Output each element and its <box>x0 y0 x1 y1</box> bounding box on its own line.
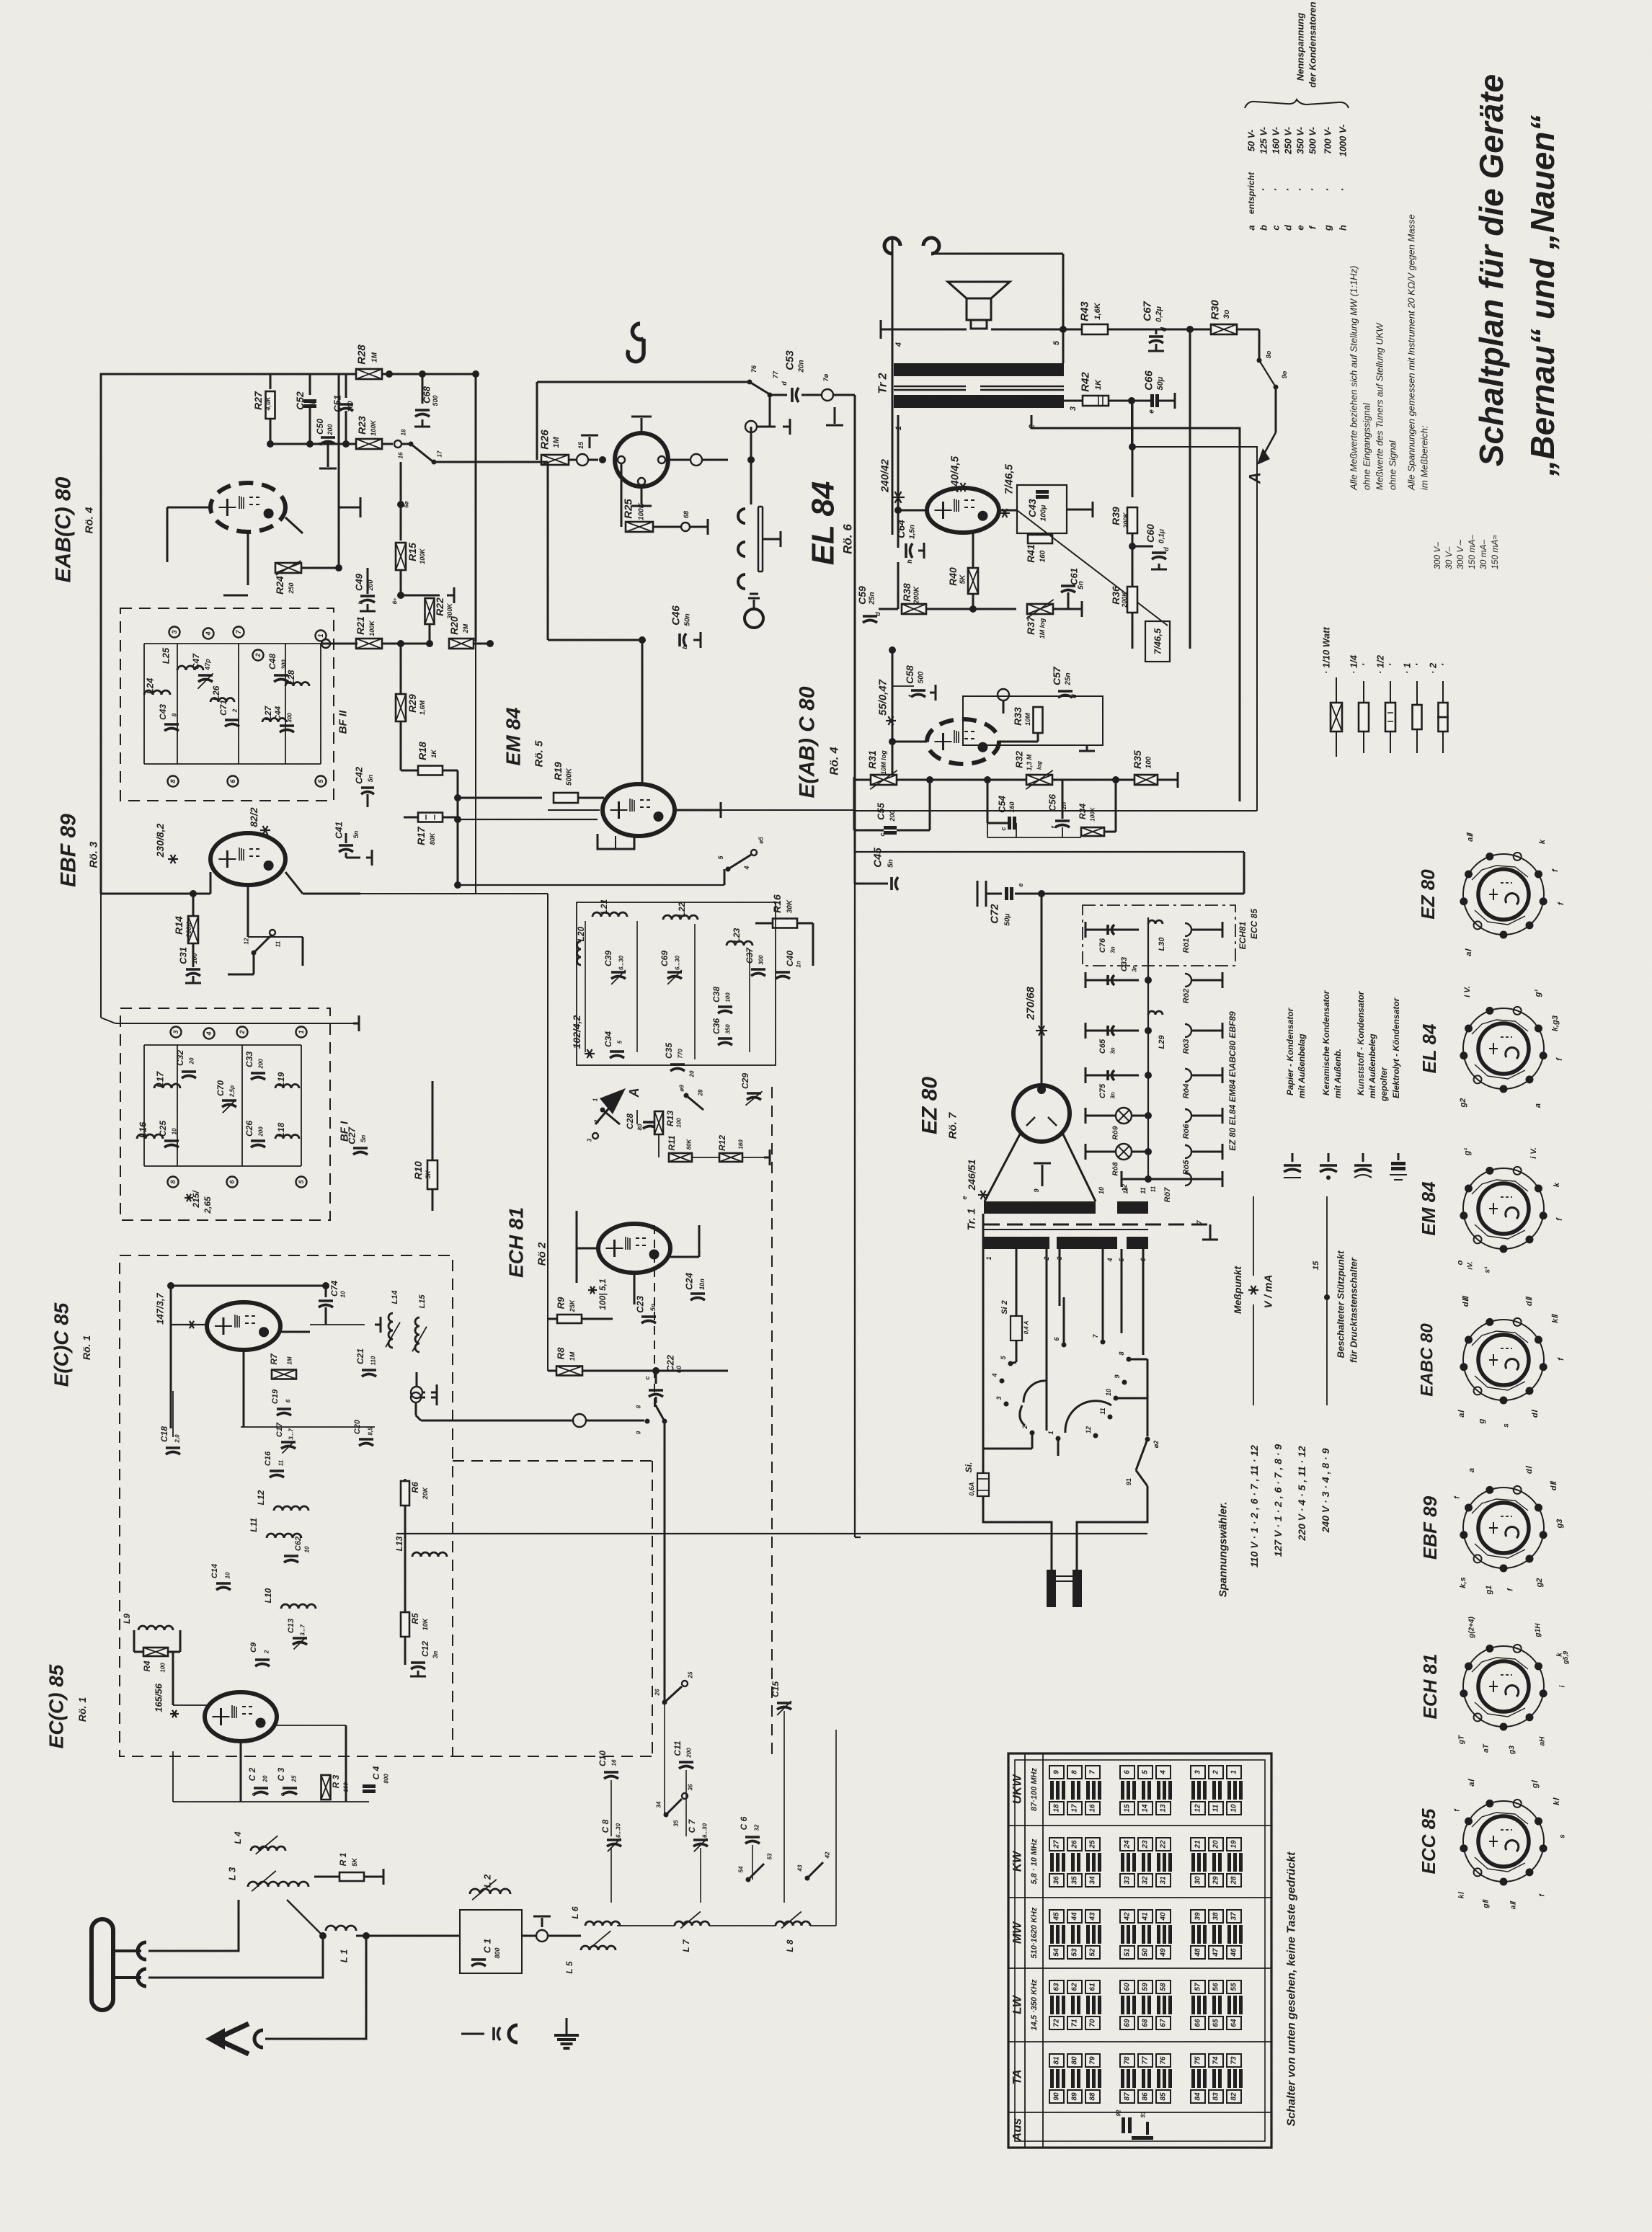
svg-text:R22: R22 <box>434 597 445 616</box>
svg-text:R15: R15 <box>407 543 418 561</box>
svg-text:L29: L29 <box>1158 1035 1166 1049</box>
cap C35 <box>670 1063 685 1066</box>
resistor R38 <box>897 562 900 609</box>
svg-text:5n: 5n <box>352 830 360 838</box>
svg-text:10M log: 10M log <box>880 750 887 775</box>
svg-text:11: 11 <box>1150 1186 1157 1192</box>
svg-text:7/46,5: 7/46,5 <box>1153 628 1163 654</box>
svg-text:100K: 100K <box>1090 806 1096 821</box>
antenna input hook <box>254 2030 263 2048</box>
svg-text:100: 100 <box>676 1118 683 1128</box>
svg-text:C67: C67 <box>1142 301 1154 321</box>
svg-text:1,6K: 1,6K <box>1093 302 1102 319</box>
wire EM84 link <box>458 884 724 886</box>
selector contacts <box>1008 1361 1013 1366</box>
svg-text:5n: 5n <box>367 774 374 782</box>
svg-text:500 V-: 500 V- <box>1307 127 1318 154</box>
switch 8 9 below C22 <box>645 1419 650 1424</box>
svg-text:40: 40 <box>1160 1912 1168 1921</box>
capacitor C74 <box>319 1299 333 1302</box>
svg-text:510·1620 KHz: 510·1620 KHz <box>1030 1907 1039 1958</box>
trim cap C47 <box>198 674 213 677</box>
svg-text:C65: C65 <box>1098 1039 1107 1054</box>
svg-text:C75: C75 <box>1098 1083 1107 1098</box>
svg-text:R29: R29 <box>407 694 418 713</box>
svg-text:2: 2 <box>1021 1425 1029 1429</box>
svg-text:C57: C57 <box>1051 666 1062 685</box>
svg-text:14,5 ·350 KHz: 14,5 ·350 KHz <box>1030 1979 1039 2030</box>
svg-text:68: 68 <box>1142 2019 1150 2027</box>
wires EBF89 <box>144 893 210 895</box>
svg-text:300: 300 <box>287 713 293 723</box>
cap C34 <box>610 1050 624 1053</box>
wire R43 to C67 <box>1108 329 1190 331</box>
wire R42 to C66 <box>1109 400 1152 402</box>
svg-text:8: 8 <box>169 1180 177 1183</box>
legend Keramischer Kondensator symbol <box>1328 1153 1330 1162</box>
svg-text:C59: C59 <box>856 586 868 605</box>
resistor legend 1/2 symbol <box>1390 681 1391 753</box>
svg-text:54: 54 <box>1053 1948 1061 1957</box>
svg-text:100: 100 <box>725 992 732 1002</box>
svg-text:gT: gT <box>1458 1735 1466 1745</box>
svg-text:·: · <box>1282 188 1294 192</box>
gnd inner frame right <box>1086 745 1088 751</box>
svg-text:R36: R36 <box>1110 586 1122 605</box>
svg-text:d: d <box>781 381 788 386</box>
svg-text:28: 28 <box>1230 1876 1238 1885</box>
speaker connector circle <box>615 433 668 486</box>
svg-text:L 4: L 4 <box>233 1831 243 1844</box>
svg-text:260: 260 <box>347 401 354 412</box>
svg-text:C49: C49 <box>354 573 365 591</box>
resistor R42 <box>1083 396 1109 406</box>
svg-text:47: 47 <box>1212 1948 1220 1957</box>
svg-text:21: 21 <box>1194 1840 1202 1849</box>
capacitor C3 <box>283 1787 297 1789</box>
wire mid bus under caps <box>270 443 389 445</box>
wire Tr1 pin6 to switch <box>1142 1249 1145 1355</box>
svg-text:L 2: L 2 <box>482 1874 493 1888</box>
trim cap C39 <box>611 971 626 974</box>
svg-text:5: 5 <box>617 1040 623 1044</box>
trim cap C32 <box>182 1070 196 1073</box>
transformer Tr1 upper bars <box>984 1201 1096 1214</box>
svg-text:7: 7 <box>1089 1770 1097 1774</box>
svg-text:EZ 80: EZ 80 <box>1417 869 1439 920</box>
svg-text:C58: C58 <box>904 665 915 684</box>
svg-text:100K: 100K <box>419 548 426 564</box>
cap C37 <box>751 968 765 971</box>
coils L5 L6 <box>585 1921 620 1926</box>
svg-text:R18: R18 <box>417 742 428 760</box>
resistor R22 <box>397 592 404 599</box>
svg-text:Rö. 7: Rö. 7 <box>947 1112 959 1139</box>
filament bus vertical <box>1147 917 1149 1179</box>
svg-text:i V.: i V. <box>1463 986 1472 997</box>
variable cap C28 arrow A <box>595 1106 611 1124</box>
svg-text:b: b <box>358 600 364 604</box>
socket EM 84 <box>1463 1168 1544 1249</box>
resistor R40 <box>968 568 978 594</box>
wire L1 to C1 <box>366 1935 460 1937</box>
svg-text:EC(C) 85: EC(C) 85 <box>45 1664 68 1748</box>
svg-text:20: 20 <box>189 1057 195 1064</box>
svg-text:gepolter: gepolter <box>1379 1066 1389 1102</box>
svg-text:C42: C42 <box>354 766 365 784</box>
svg-text:A: A <box>1246 472 1264 484</box>
svg-text:10: 10 <box>304 1546 311 1552</box>
resistor R39 <box>1132 401 1134 497</box>
capacitor C23 <box>641 1315 656 1318</box>
capacitor C46 <box>548 639 642 641</box>
ground cap symbol bottom <box>461 2033 484 2035</box>
svg-text:dⅠ: dⅠ <box>1525 1465 1534 1474</box>
vertical trunk from C67 junction <box>1189 329 1191 649</box>
hook terminal right <box>923 238 939 254</box>
svg-text:Aus: Aus <box>1011 2118 1024 2142</box>
svg-text:·: · <box>1270 188 1282 192</box>
svg-text:91: 91 <box>1140 2111 1147 2117</box>
contact circle below L15 <box>411 1387 422 1398</box>
svg-text:g5,9: g5,9 <box>1562 1651 1569 1665</box>
svg-text:R5: R5 <box>410 1613 420 1624</box>
svg-text:a: a <box>1467 1468 1476 1472</box>
svg-text:C41: C41 <box>334 822 345 839</box>
wire EL84 left lead <box>898 510 927 512</box>
svg-text:L 1: L 1 <box>339 1949 350 1963</box>
svg-text:L 5: L 5 <box>564 1961 574 1973</box>
wire phones branch down <box>769 395 771 427</box>
wire R28 to right vertical <box>475 374 477 641</box>
svg-text:C66: C66 <box>1143 370 1155 391</box>
svg-text:82: 82 <box>1230 2092 1238 2101</box>
svg-text:2n: 2n <box>1060 801 1067 810</box>
svg-text:k: k <box>1538 839 1547 844</box>
svg-text:Alle Meßwerte beziehen sich au: Alle Meßwerte beziehen sich auf Stellung… <box>1349 266 1359 491</box>
svg-text:C43: C43 <box>1026 499 1038 517</box>
cap C40 <box>776 971 790 974</box>
voltage legend brace <box>1245 99 1349 108</box>
svg-text:0,1μ: 0,1μ <box>1158 529 1166 543</box>
svg-text:350: 350 <box>725 1024 732 1034</box>
antenna stub wires <box>113 1949 141 1952</box>
mains wires to plug <box>983 1510 1052 1570</box>
svg-text:C34: C34 <box>603 1031 613 1047</box>
pins circled bottom row BFI <box>168 1177 179 1188</box>
svg-text:R8: R8 <box>556 1347 567 1359</box>
svg-text:100K: 100K <box>370 419 377 436</box>
svg-text:81: 81 <box>1053 2056 1061 2065</box>
svg-text:34: 34 <box>656 1801 662 1808</box>
svg-text:Meßpunkt: Meßpunkt <box>1232 1266 1243 1314</box>
UKW tuner dashed box <box>120 1255 453 1756</box>
svg-text:3n: 3n <box>1110 1047 1116 1054</box>
svg-text:1M: 1M <box>552 437 561 448</box>
svg-text:32: 32 <box>754 1824 760 1831</box>
svg-text:8,5: 8,5 <box>368 1427 374 1436</box>
stub ground near C53 <box>834 407 836 424</box>
svg-text:75: 75 <box>1194 2056 1202 2065</box>
trim cap C48 <box>274 674 288 677</box>
pickup ladder symbol <box>738 509 745 523</box>
capacitor C24 <box>690 1292 705 1295</box>
svg-text:c: c <box>879 832 886 836</box>
svg-text:3: 3 <box>995 1396 1003 1400</box>
svg-text:ECH 81: ECH 81 <box>1419 1653 1441 1719</box>
wire connector right to contact <box>668 459 690 461</box>
tube EBF89 <box>210 833 285 885</box>
svg-text:3n: 3n <box>1110 946 1116 953</box>
svg-text:125 V-: 125 V- <box>1258 127 1269 154</box>
svg-text:C43: C43 <box>158 704 168 720</box>
svg-text:800: 800 <box>383 1774 390 1784</box>
svg-text:R35: R35 <box>1132 750 1143 769</box>
svg-text:g: g <box>1323 225 1333 231</box>
wire switch to A arrow <box>1275 387 1277 432</box>
svg-text:8: 8 <box>1118 1351 1125 1355</box>
svg-text:200: 200 <box>258 1059 265 1070</box>
capacitor C50 <box>321 436 335 439</box>
svg-text:kⅡ: kⅡ <box>1551 1314 1560 1323</box>
svg-text:L 6: L 6 <box>570 1906 580 1918</box>
svg-text:1: 1 <box>317 633 324 637</box>
svg-text:76: 76 <box>1160 2056 1168 2065</box>
svg-text:C36: C36 <box>711 1018 721 1034</box>
capacitor C13 trim <box>293 1637 307 1640</box>
svg-text:C72: C72 <box>989 904 1001 924</box>
svg-text:45: 45 <box>1053 1912 1061 1921</box>
svg-text:25: 25 <box>1089 1840 1097 1849</box>
svg-text:Beschalteter Stützpunkt: Beschalteter Stützpunkt <box>1336 1250 1346 1358</box>
svg-text:90: 90 <box>1053 2092 1061 2101</box>
svg-text:160: 160 <box>343 1782 350 1792</box>
svg-text:C47: C47 <box>191 653 201 670</box>
svg-text:30 V–: 30 V– <box>1444 546 1454 569</box>
legend Kunststoff-Kondensator symbol <box>1362 1153 1364 1162</box>
resistor R35 <box>1134 775 1158 785</box>
potentiometer R31 <box>871 775 897 785</box>
svg-text:R23: R23 <box>356 416 368 435</box>
svg-text:ECH 81: ECH 81 <box>505 1207 528 1278</box>
svg-text:6÷: 6÷ <box>392 597 399 604</box>
wire EZ80 anode vertical <box>1041 894 1043 1085</box>
switch contacts front <box>664 1813 669 1818</box>
svg-text:1M: 1M <box>371 352 379 363</box>
svg-text:800: 800 <box>494 1947 501 1958</box>
svg-text:2,0: 2,0 <box>174 1434 181 1444</box>
svg-text:L 7: L 7 <box>681 1939 691 1952</box>
svg-text:100: 100 <box>160 1663 166 1673</box>
svg-text:A: A <box>627 1088 641 1098</box>
svg-text:gⅡ: gⅡ <box>1483 1898 1491 1908</box>
svg-text:58: 58 <box>1160 1983 1168 1991</box>
svg-text:C25: C25 <box>158 1121 168 1137</box>
svg-text:im Meßbereich:: im Meßbereich: <box>1419 425 1430 490</box>
svg-text:g1: g1 <box>1485 1586 1493 1596</box>
svg-text:4μ: 4μ <box>308 399 315 408</box>
svg-text:4,0K: 4,0K <box>265 396 272 412</box>
resistor R27 <box>270 374 272 389</box>
svg-text:160: 160 <box>1039 550 1047 562</box>
capacitor C49 <box>247 568 249 585</box>
svg-text:Rö. 5: Rö. 5 <box>533 740 546 767</box>
svg-text:Alle Spannungen gemessen mit: Alle Spannungen gemessen mit Instrument … <box>1406 214 1417 491</box>
selector wires <box>1011 1362 1016 1364</box>
svg-text:27: 27 <box>1053 1840 1061 1849</box>
svg-text:C68: C68 <box>422 386 432 404</box>
transformer Tr2 core lines <box>894 386 966 388</box>
tube EABC80 dashed <box>210 483 285 532</box>
svg-text:c: c <box>251 1792 257 1796</box>
wire trunk tube left stub <box>548 809 600 811</box>
svg-text:C71: C71 <box>218 700 228 716</box>
svg-text:80: 80 <box>1071 2056 1079 2065</box>
svg-text:12: 12 <box>1085 1426 1092 1433</box>
svg-text:12: 12 <box>244 938 250 944</box>
resistor R21 <box>356 639 382 649</box>
svg-text:·: · <box>1258 188 1270 192</box>
wire top rail tuner <box>171 1285 326 1287</box>
svg-text:1: 1 <box>1230 1770 1238 1774</box>
filament row C65 L29 Ro3 <box>1085 1030 1090 1032</box>
socket ECH 81 <box>1463 1646 1544 1727</box>
svg-text:147/3,7: 147/3,7 <box>155 1293 166 1325</box>
svg-text:50 V-: 50 V- <box>1246 130 1257 152</box>
svg-text:C35: C35 <box>664 1043 674 1059</box>
svg-text:39: 39 <box>1194 1912 1202 1921</box>
svg-text:3...7: 3...7 <box>300 1624 306 1636</box>
svg-text:C69: C69 <box>660 951 670 966</box>
tube ECC85b <box>205 1692 277 1741</box>
arrow A <box>1263 432 1276 456</box>
svg-text:62: 62 <box>1071 1983 1079 1991</box>
svg-text:5K: 5K <box>351 1857 358 1867</box>
svg-text:mit Außenbelag: mit Außenbelag <box>1297 1033 1307 1098</box>
svg-text:350 V-: 350 V- <box>1295 127 1306 154</box>
svg-text:200K: 200K <box>913 586 921 605</box>
svg-text:41: 41 <box>1142 1912 1150 1921</box>
svg-text:R42: R42 <box>1080 372 1092 392</box>
svg-text:86: 86 <box>1142 2092 1150 2101</box>
svg-text:C53: C53 <box>784 350 796 370</box>
junction dots bus <box>984 776 991 783</box>
svg-text:der Kondensatoren: der Kondensatoren <box>1307 1 1318 87</box>
svg-text:17: 17 <box>1071 1804 1079 1813</box>
svg-text:3: 3 <box>1069 406 1078 411</box>
IF can BFII dashed box <box>120 608 334 801</box>
svg-text:für Drucktastenschalter: für Drucktastenschalter <box>1349 1257 1359 1363</box>
switch contacts 1 2 3 osc <box>600 1108 605 1113</box>
svg-text:37: 37 <box>1230 1912 1238 1921</box>
svg-text:18: 18 <box>401 429 407 435</box>
svg-text:11: 11 <box>1212 1804 1220 1812</box>
oscillator can box <box>577 902 776 1065</box>
svg-text:9: 9 <box>1114 1374 1121 1378</box>
svg-text:ECH81: ECH81 <box>1238 921 1248 949</box>
coil L10 <box>281 1604 316 1609</box>
svg-text:215/: 215/ <box>191 1190 201 1209</box>
svg-text:100K: 100K <box>638 502 646 520</box>
svg-text:R10: R10 <box>412 1161 424 1180</box>
svg-text:R17: R17 <box>415 826 427 845</box>
cap C27 <box>353 1147 368 1150</box>
svg-text:300: 300 <box>281 659 288 670</box>
resistor legend 2 Watt symbol <box>1442 681 1444 753</box>
svg-text:1M log: 1M log <box>1039 618 1046 639</box>
svg-text:300 V–: 300 V– <box>1432 542 1442 569</box>
svg-text:C38: C38 <box>711 987 721 1002</box>
mains left wire <box>982 1214 985 1473</box>
ground right of C43 box <box>1067 509 1085 511</box>
svg-text:35: 35 <box>1071 1876 1079 1885</box>
svg-text:Spannungswähler.: Spannungswähler. <box>1217 1502 1230 1598</box>
svg-text:C70: C70 <box>216 1080 226 1096</box>
front wires lower <box>241 1801 369 1802</box>
wire across top of BFI <box>115 1023 353 1024</box>
resistor R30 <box>1190 329 1212 331</box>
svg-text:1K: 1K <box>430 749 438 758</box>
resistor R11 <box>669 1153 692 1162</box>
svg-text:ø5: ø5 <box>758 837 765 844</box>
svg-text:300 V∼: 300 V∼ <box>1455 540 1465 569</box>
svg-text:Rö7: Rö7 <box>1163 1187 1172 1203</box>
svg-text:EBF 89: EBF 89 <box>1419 1495 1441 1560</box>
EM84 bottom lead <box>615 836 616 849</box>
svg-text:C44: C44 <box>274 706 283 721</box>
svg-text:g3: g3 <box>1509 1746 1516 1755</box>
svg-text:Si 2: Si 2 <box>1000 1300 1009 1315</box>
svg-text:48: 48 <box>1194 1948 1202 1957</box>
hook terminal left <box>884 238 900 254</box>
contact 15 <box>569 459 577 461</box>
svg-text:42: 42 <box>1124 1912 1132 1921</box>
cap C38 <box>718 1005 732 1008</box>
resistor R3 <box>321 1775 331 1800</box>
svg-text:C14: C14 <box>210 1564 219 1578</box>
svg-text:R43: R43 <box>1079 301 1091 321</box>
svg-text:„Bernau“ und „Nauen“: „Bernau“ und „Nauen“ <box>1524 115 1561 477</box>
svg-text:200: 200 <box>258 1126 265 1137</box>
resistor R6 <box>401 1481 409 1506</box>
svg-text:Papier - Kondensator: Papier - Kondensator <box>1285 1007 1295 1095</box>
svg-text:R32: R32 <box>1014 750 1025 768</box>
svg-text:C21: C21 <box>355 1348 365 1364</box>
coil L8 <box>776 1921 810 1926</box>
svg-text:10: 10 <box>1105 1389 1112 1396</box>
wire grid row <box>310 1324 365 1325</box>
svg-text:220 V · 4 · 5 , 11 · 12: 220 V · 4 · 5 , 11 · 12 <box>1296 1446 1307 1541</box>
wire EL84 cathode down <box>972 533 974 569</box>
resistor R8 <box>556 1366 582 1376</box>
svg-text:80: 80 <box>637 1124 644 1130</box>
svg-text:R16: R16 <box>771 894 783 913</box>
svg-text:R 1: R 1 <box>338 1852 348 1866</box>
svg-text:500: 500 <box>918 671 925 683</box>
svg-text:g(2+4): g(2+4) <box>1468 1616 1476 1638</box>
transformer Tr2 primary bar <box>894 363 1064 376</box>
svg-text:72: 72 <box>1053 2019 1061 2027</box>
wire long top audio line <box>537 381 750 383</box>
resistor R26 <box>536 382 538 460</box>
svg-text:100: 100 <box>1145 756 1153 768</box>
socket EBF 89 <box>1463 1488 1544 1568</box>
svg-text:200: 200 <box>327 424 334 435</box>
svg-text:C18: C18 <box>159 1426 169 1442</box>
capacitor C58 <box>911 689 925 692</box>
svg-text:k,g3: k,g3 <box>1551 1015 1560 1031</box>
resistor R17 <box>404 817 418 819</box>
